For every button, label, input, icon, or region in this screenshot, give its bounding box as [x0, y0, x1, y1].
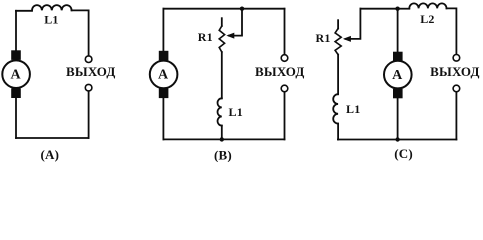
wire A: top horizontal corner to coil: [16, 10, 32, 12]
wire C: top horizontal from wiper riser to junction: [360, 8, 397, 10]
node: junction on top wire (B): [240, 7, 244, 11]
resistor R1 (circuit B): zigzag: [219, 26, 224, 52]
wire A: left vertical bottom: [15, 98, 17, 139]
wire B: bottom horizontal: [163, 138, 284, 140]
svg-text:A: A: [158, 68, 169, 83]
wire C: wiper riser from top wire down to arrow: [346, 9, 361, 39]
wire B: resistor to coil: [221, 52, 223, 98]
wire B: left vertical bottom: [162, 98, 164, 139]
svg-text:R1: R1: [315, 31, 330, 45]
ammeter A (circuit A): body circle: [2, 60, 30, 88]
svg-text:(C): (C): [394, 146, 413, 161]
terminal: output bottom (A): [85, 84, 92, 91]
terminal: output top (A): [85, 56, 92, 63]
ammeter A (circuit B): top square terminal: [159, 51, 169, 61]
wiper arrowhead (B R1): [226, 33, 234, 39]
wire B: left vertical top: [162, 9, 164, 51]
wire B: top horizontal: [163, 8, 284, 10]
resistor R1 (circuit B): top stub: [221, 18, 223, 26]
wire C: junction to coil L2: [398, 8, 410, 10]
svg-text:L1: L1: [228, 105, 242, 119]
svg-text:L1: L1: [346, 102, 360, 116]
terminal: output top (C): [453, 55, 460, 62]
wire A: bottom horizontal: [16, 137, 89, 139]
terminal: output bottom (C): [453, 85, 460, 92]
svg-text:L1: L1: [44, 13, 58, 27]
ammeter A (circuit B): bottom square terminal: [159, 89, 169, 99]
node: junction bottom wire (C): [395, 137, 399, 141]
inductor L2 (circuit C): [409, 3, 446, 8]
svg-text:(A): (A): [40, 147, 59, 162]
wire C: coil end to top-right corner down to output: [447, 8, 457, 54]
svg-text:R1: R1: [198, 30, 213, 44]
ammeter A (circuit C): body circle: [384, 61, 412, 89]
wire C: ammeter to bottom junction: [397, 98, 399, 140]
wire A: coil end to top-right corner and down to output terminal: [72, 10, 89, 55]
ammeter A (circuit A): bottom square terminal: [11, 88, 21, 98]
svg-text:ВЫХОД: ВЫХОД: [430, 64, 480, 79]
wire A: bottom terminal down: [88, 91, 90, 138]
wire C: coil to bottom corner: [337, 124, 339, 140]
wire C: right vertical bottom: [455, 92, 457, 140]
svg-text:A: A: [10, 67, 21, 82]
svg-text:A: A: [392, 68, 403, 83]
svg-text:ВЫХОД: ВЫХОД: [66, 64, 116, 79]
svg-text:ВЫХОД: ВЫХОД: [255, 64, 305, 79]
ammeter A (circuit B): body circle: [150, 61, 178, 89]
node: junction on top wire (C): [395, 7, 399, 11]
resistor R1 (circuit C): top stub: [337, 20, 339, 28]
wire C: middle vertical junction to ammeter: [397, 9, 399, 52]
ammeter A (circuit C): top square terminal: [393, 52, 403, 62]
wire B: wiper arm from junction down and left: [229, 9, 242, 36]
inductor L1 (circuit C): [333, 94, 338, 123]
wire B: right vertical top (to output): [284, 9, 286, 55]
wire C: bottom horizontal: [338, 139, 457, 141]
wire C: resistor to coil: [337, 55, 339, 95]
inductor L1 (circuit A): [32, 5, 72, 10]
inductor L1 (circuit B): [217, 98, 221, 125]
wire A: left vertical (top-left corner down to ammeter): [15, 11, 17, 51]
ammeter A (circuit A): top square terminal: [11, 50, 21, 60]
resistor R1 (circuit C): zigzag: [335, 29, 341, 55]
terminal: output top (B): [281, 55, 288, 62]
wire B: coil to bottom wire: [221, 126, 223, 140]
node: junction bottom wire (B): [220, 137, 224, 141]
ammeter A (circuit C): bottom square terminal: [393, 89, 403, 99]
terminal: output bottom (B): [281, 85, 288, 92]
svg-text:(B): (B): [214, 147, 232, 162]
svg-text:L2: L2: [420, 12, 434, 26]
wire B: right vertical bottom: [284, 92, 286, 139]
wiper arrowhead (C R1): [343, 36, 351, 42]
